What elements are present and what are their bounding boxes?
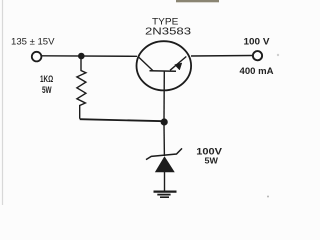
input terminal bbox=[32, 52, 42, 62]
output terminal bbox=[253, 51, 262, 60]
transistor Q1 circle bbox=[137, 41, 192, 90]
svg-text:135 ± 15V: 135 ± 15V bbox=[11, 37, 55, 47]
wire: transistor emitter to output terminal bbox=[191, 55, 252, 58]
transistor Q1 base bar bbox=[150, 70, 177, 73]
zener diode D1 anode triangle bbox=[155, 157, 174, 172]
transistor Q1 emitter lead (right diagonal) bbox=[170, 57, 186, 71]
scan artifact: faint speck right middle bbox=[277, 54, 279, 56]
ground bar 3 bbox=[160, 196, 169, 198]
resistor R1 1K 5W bbox=[77, 58, 86, 119]
ground bar 1 bbox=[154, 191, 177, 193]
svg-text:5W: 5W bbox=[42, 85, 52, 95]
svg-text:100 V: 100 V bbox=[244, 37, 270, 47]
transistor Q1 emitter arrow bbox=[175, 63, 182, 70]
ground bar 2 bbox=[157, 194, 170, 196]
svg-text:400 mA: 400 mA bbox=[240, 66, 274, 76]
wire: resistor bottom to node B bbox=[80, 119, 164, 121]
scan artifact: olive smudge top edge bbox=[176, 0, 219, 2]
transistor Q1 collector lead (left diagonal) bbox=[138, 57, 153, 71]
transistor Q1 base lead down bbox=[163, 71, 165, 121]
scan artifact: speck bottom right bbox=[267, 196, 269, 198]
wire: input terminal to transistor collector bbox=[42, 55, 137, 58]
zener lead to ground bbox=[164, 172, 166, 191]
svg-text:2N3583: 2N3583 bbox=[145, 27, 191, 38]
zener diode D1 cathode bar with bent ends bbox=[146, 148, 182, 159]
wire: node B down to zener bbox=[163, 124, 165, 156]
scan artifact: faint left border line bbox=[2, 0, 4, 205]
node A junction dot bbox=[78, 53, 85, 60]
svg-text:1KΩ: 1KΩ bbox=[40, 74, 53, 84]
node B junction dot bbox=[161, 118, 168, 125]
svg-text:TYPE: TYPE bbox=[152, 17, 178, 27]
svg-text:5W: 5W bbox=[205, 156, 219, 166]
